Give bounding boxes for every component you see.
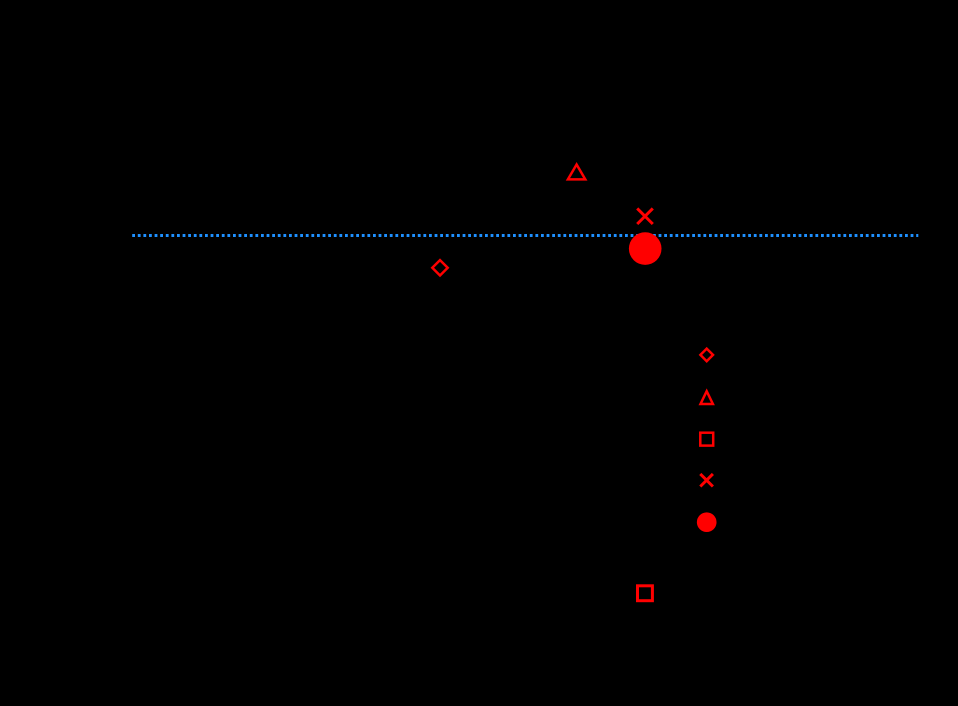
data point: open square	[638, 586, 653, 601]
legend marker: open triangle	[701, 391, 713, 404]
legend marker: filled circle	[697, 512, 717, 532]
data point: large filled circle	[629, 232, 662, 265]
threshold line (blue dotted)	[132, 234, 918, 237]
data point: open triangle	[568, 165, 585, 180]
data point: open diamond	[432, 260, 447, 275]
legend marker: open square	[700, 433, 713, 446]
data point: X cross	[637, 208, 653, 224]
legend marker: X cross	[700, 474, 713, 487]
legend marker: open diamond	[700, 349, 713, 362]
